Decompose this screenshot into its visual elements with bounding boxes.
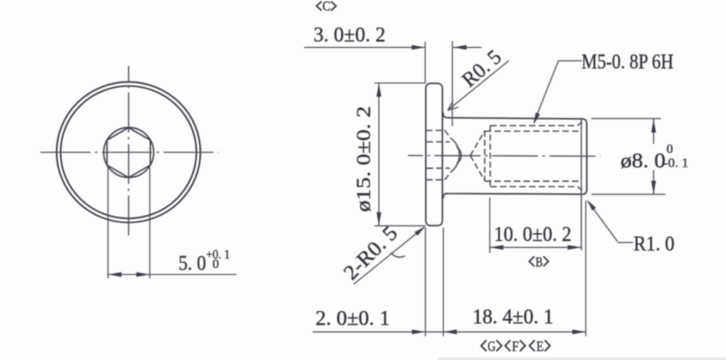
end chamfer hidden diagonals: [578, 121, 584, 126]
leader R1.0: [618, 242, 634, 244]
svg-text:B: B: [535, 255, 542, 270]
body outline: [443, 113, 587, 199]
svg-text:18. 4±0. 1: 18. 4±0. 1: [473, 305, 554, 329]
leader 2-R0.5: [354, 227, 425, 284]
thread start hidden vertical: [489, 126, 491, 187]
svg-text:0: 0: [667, 141, 674, 156]
svg-text:F: F: [512, 339, 519, 355]
dimension line 5.0: [108, 274, 236, 276]
svg-text:E: E: [536, 339, 544, 355]
flange outline: [426, 83, 443, 225]
svg-text:3. 0±0. 2: 3. 0±0. 2: [314, 22, 386, 46]
extension line left hex flat: [107, 168, 109, 279]
drill cone hidden lines: [470, 131, 484, 156]
scan artifact bottom edge: [438, 358, 726, 360]
svg-text:2. 0±0. 1: 2. 0±0. 1: [316, 306, 391, 330]
svg-text:M5-0. 8P 6H: M5-0. 8P 6H: [582, 50, 674, 74]
svg-text:G: G: [488, 339, 496, 355]
extension line right hex flat: [149, 168, 151, 279]
svg-text:ø8. 0: ø8. 0: [621, 148, 666, 172]
vertical centerline: [128, 66, 130, 239]
svg-text:-0. 1: -0. 1: [664, 155, 689, 170]
text <G><F><E>: [481, 340, 550, 351]
dim 3.0±0.2 extension line A: [424, 42, 426, 84]
dim Ø8.0 extension lines: [592, 118, 662, 120]
horizontal centerline: [41, 151, 219, 153]
svg-text:R0. 5: R0. 5: [457, 45, 506, 92]
socket bottom arc outer: [451, 138, 460, 171]
centerline right view: [408, 155, 601, 158]
dim Ø15.0±0.2 extension lines: [375, 82, 426, 84]
dim 3.0±0.2 extension line B: [451, 41, 453, 126]
svg-text:0: 0: [213, 256, 220, 271]
socket chamfer circle: [104, 128, 154, 178]
hidden socket corner diagonals: [445, 130, 451, 138]
socket bottom arc inner: [457, 147, 462, 163]
bottom extension line flange right: [442, 228, 444, 337]
leader squiggle: [391, 253, 405, 258]
bottom dimension line: [313, 331, 586, 333]
bottom extension line flange left: [424, 228, 426, 337]
leader R0.5: [448, 61, 509, 111]
end chamfer edge line: [580, 119, 582, 250]
text <C>: [317, 1, 337, 10]
svg-text:R1. 0: R1. 0: [634, 232, 675, 256]
thread major diameter hidden lines: [490, 125, 577, 127]
flange outer circle: [57, 82, 201, 223]
hidden socket flat lines in flange: [427, 141, 450, 143]
hex socket hexagon: [107, 128, 150, 178]
thread minor diameter hidden lines: [485, 130, 581, 132]
hidden socket corner lines in flange: [427, 129, 445, 131]
svg-text:5. 0: 5. 0: [179, 251, 207, 275]
bottom extension line body end: [585, 201, 587, 337]
svg-text:C: C: [322, 0, 330, 14]
dim 10.0±0.2 dimension line: [490, 246, 581, 248]
dim 10.0±0.2 extension line: [489, 198, 491, 254]
dim Ø15.0±0.2 dimension line: [378, 83, 380, 226]
text <B>: [529, 256, 548, 266]
leader M5-0.8P 6H: [534, 61, 582, 123]
dim Ø8.0 dimension line: [653, 119, 655, 144]
svg-text:10. 0±0. 2: 10. 0±0. 2: [494, 222, 572, 246]
flange inner edge circle: [61, 86, 197, 218]
dim 3.0±0.2 dimension line: [304, 46, 425, 48]
svg-text:ø15. 0±0. 2: ø15. 0±0. 2: [353, 106, 375, 212]
